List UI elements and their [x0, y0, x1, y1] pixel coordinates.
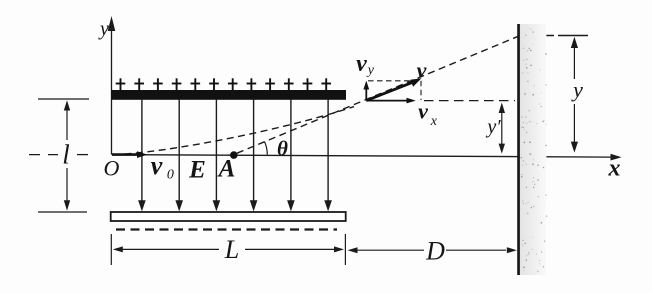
svg-text:0: 0 — [167, 168, 174, 183]
svg-text:v: v — [151, 151, 163, 180]
svg-text:E: E — [188, 157, 206, 184]
svg-text:v: v — [417, 58, 427, 83]
svg-text:y: y — [571, 77, 583, 102]
svg-text:y: y — [366, 63, 375, 78]
svg-text:θ: θ — [277, 137, 288, 161]
svg-text:y: y — [98, 18, 109, 40]
svg-text:l: l — [62, 140, 70, 170]
svg-text:y′: y′ — [485, 116, 501, 138]
svg-text:O: O — [104, 156, 120, 181]
svg-text:v: v — [418, 99, 428, 124]
svg-text:L: L — [224, 235, 239, 264]
svg-text:x: x — [608, 156, 621, 182]
svg-text:v: v — [356, 51, 367, 77]
svg-text:A: A — [217, 156, 236, 183]
svg-text:x: x — [430, 114, 438, 129]
svg-text:D: D — [425, 237, 445, 266]
